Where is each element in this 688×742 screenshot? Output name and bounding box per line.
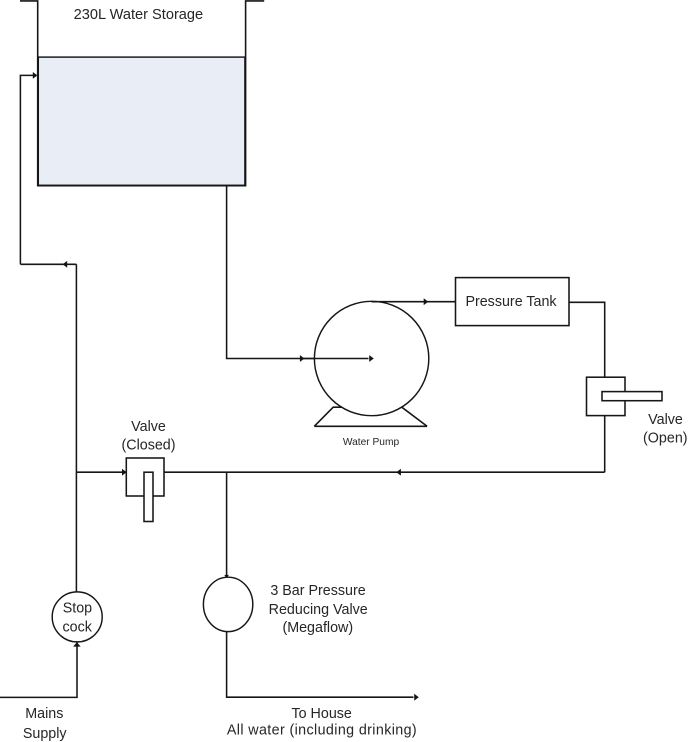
svg-text:Pressure Tank: Pressure Tank: [465, 294, 557, 310]
svg-text:Reducing Valve: Reducing Valve: [269, 602, 368, 618]
svg-text:(Megaflow): (Megaflow): [282, 620, 353, 636]
wire: pump outlet to pressure tank: [372, 301, 456, 303]
pressure tank PT1 box: [456, 278, 570, 326]
pressure reducing valve PRV1: [203, 577, 252, 631]
svg-text:Water Pump: Water Pump: [343, 437, 400, 448]
svg-text:(Closed): (Closed): [121, 437, 175, 453]
svg-text:cock: cock: [62, 620, 92, 636]
svg-text:(Open): (Open): [643, 431, 688, 447]
arrow: flow left on return line: [396, 469, 401, 476]
wire: tee junction to riser: [20, 263, 76, 265]
svg-text:Mains: Mains: [25, 706, 63, 722]
pump P1 circle: [314, 301, 428, 415]
svg-text:Supply: Supply: [23, 726, 68, 742]
arrow: flow up into stop cock: [73, 642, 81, 646]
wire: stop cock down to mains corner: [0, 642, 77, 697]
pump base pedestal: [314, 407, 427, 426]
valve V2 handle (right): [602, 392, 662, 401]
wire: pressure tank to right riser down to return line: [569, 302, 605, 472]
svg-text:Valve: Valve: [131, 419, 166, 435]
valve V1 handle (down): [144, 472, 153, 521]
wire: branch down to pressure reducing valve: [226, 472, 228, 577]
svg-text:Valve: Valve: [648, 412, 683, 428]
arrow: flow left toward riser: [63, 261, 68, 268]
tank water fill: [38, 57, 245, 185]
arrow: inlet at pump centre: [369, 355, 374, 362]
svg-text:Stop: Stop: [63, 600, 92, 616]
stop cock valve: [52, 592, 102, 642]
svg-text:3 Bar Pressure: 3 Bar Pressure: [270, 583, 365, 599]
arrow: into pressure tank: [424, 298, 429, 305]
wire: supply return line (valve closed to right riser): [76, 471, 604, 473]
svg-text:All water (including drinking): All water (including drinking): [227, 723, 417, 739]
valve V2 (open) body: [587, 377, 626, 415]
valve V1 (closed) body: [126, 458, 164, 496]
arrow: into tank: [33, 72, 38, 79]
arrow: to house: [414, 694, 419, 701]
arrow: into closed valve: [122, 469, 127, 476]
wire: PRV down to house corner: [227, 632, 414, 698]
wire: riser feeding tank (vertical + horizontal into tank wall): [20, 75, 33, 264]
tank T1 open-top outline: [20, 1, 264, 186]
wire: tank outlet down and across to pump: [227, 186, 368, 359]
arrow: inlet before pump: [300, 355, 305, 362]
arrow: small, down into PRV: [224, 575, 229, 579]
wire: vertical from tee down to stop cock: [75, 264, 77, 592]
wire: pump inlet (redrawn over circle): [300, 358, 369, 360]
svg-text:230L Water Storage: 230L Water Storage: [74, 7, 204, 23]
svg-text:To House: To House: [291, 706, 351, 722]
